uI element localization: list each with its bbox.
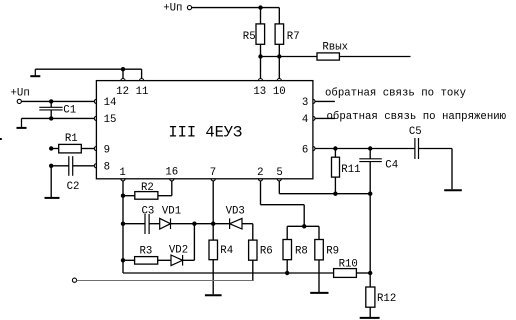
- svg-text:R8: R8: [295, 246, 308, 258]
- svg-text:2: 2: [257, 167, 263, 179]
- svg-text:9: 9: [104, 144, 110, 156]
- svg-text:R12: R12: [377, 293, 396, 305]
- svg-text:8: 8: [104, 162, 110, 174]
- svg-text:III 4ЕУЗ: III 4ЕУЗ: [168, 124, 242, 142]
- svg-text:VD2: VD2: [169, 245, 188, 257]
- svg-text:C4: C4: [385, 160, 398, 172]
- svg-text:13: 13: [253, 86, 266, 98]
- svg-text:C1: C1: [63, 104, 76, 116]
- svg-text:11: 11: [136, 86, 149, 98]
- svg-text:VD1: VD1: [162, 206, 181, 218]
- svg-text:1: 1: [119, 167, 125, 179]
- svg-text:R2: R2: [141, 182, 154, 194]
- svg-text:C3: C3: [142, 206, 155, 218]
- svg-text:12: 12: [116, 86, 129, 98]
- svg-text:R11: R11: [341, 164, 360, 176]
- svg-text:R3: R3: [140, 245, 153, 257]
- svg-text:обратная связь по току: обратная связь по току: [325, 87, 467, 100]
- svg-text:14: 14: [104, 97, 117, 109]
- svg-text:C5: C5: [409, 126, 422, 138]
- svg-text:5: 5: [276, 167, 282, 179]
- svg-text:R4: R4: [220, 245, 233, 257]
- svg-text:Rвых: Rвых: [322, 42, 348, 54]
- svg-text:15: 15: [104, 114, 117, 126]
- svg-text:6: 6: [302, 144, 308, 156]
- svg-text:R7: R7: [287, 31, 300, 43]
- svg-text:обратная связь по напряжению: обратная связь по напряжению: [327, 110, 507, 123]
- svg-text:+Uп: +Uп: [11, 87, 30, 99]
- svg-text:3: 3: [302, 97, 308, 109]
- svg-text:10: 10: [273, 86, 286, 98]
- svg-text:R9: R9: [326, 246, 339, 258]
- svg-text:+Uп: +Uп: [163, 3, 182, 15]
- svg-text:16: 16: [165, 166, 178, 178]
- svg-text:7: 7: [210, 167, 216, 179]
- svg-text:C2: C2: [67, 181, 80, 193]
- svg-text:4: 4: [302, 114, 308, 126]
- svg-text:R10: R10: [339, 259, 358, 271]
- svg-text:R5: R5: [243, 31, 256, 43]
- svg-text:R1: R1: [65, 133, 78, 145]
- svg-text:VD3: VD3: [226, 206, 245, 218]
- svg-text:R6: R6: [260, 246, 273, 258]
